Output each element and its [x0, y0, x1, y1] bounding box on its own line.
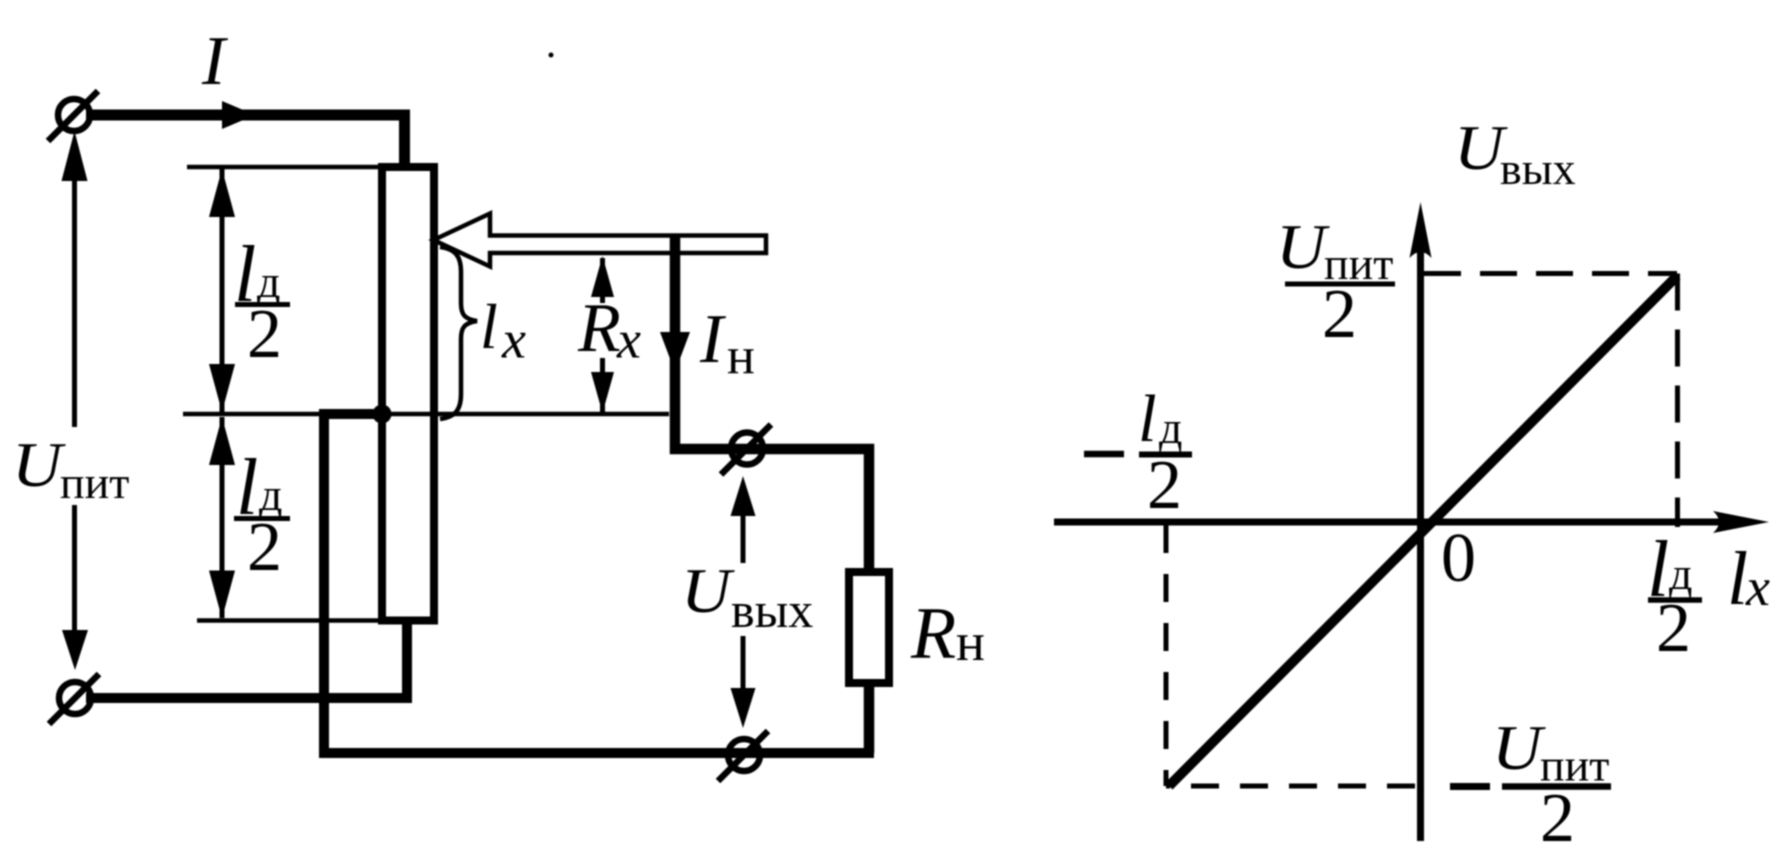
dimension l_d/2 upper — [209, 169, 235, 412]
label l_d/2 right — [1647, 526, 1702, 667]
label U_vyh graph title — [1454, 112, 1576, 194]
svg-text:2: 2 — [1656, 590, 1691, 667]
dimension line U_pit — [62, 131, 89, 670]
svg-text:U: U — [12, 429, 66, 500]
svg-text:x: x — [616, 310, 641, 370]
wire: Rn bottom leg — [864, 683, 875, 753]
label -U_pit/2 bottom — [1450, 712, 1611, 854]
wiper junction node — [373, 405, 392, 424]
dashed guide: top horizontal at U_pit/2 — [1424, 271, 1677, 276]
potentiometer body — [382, 167, 434, 621]
wire: bottom left return — [86, 621, 407, 699]
svg-text:пит: пит — [60, 457, 129, 508]
wire: wiper to bottom output rail — [324, 414, 874, 753]
svg-text:2: 2 — [1540, 780, 1575, 854]
svg-text:I: I — [699, 301, 727, 378]
current arrow I — [222, 101, 255, 129]
dashed guide: left vertical at -l_d/2 — [1164, 525, 1169, 786]
svg-text:н: н — [727, 328, 755, 385]
svg-text:l: l — [480, 291, 498, 362]
svg-text:U: U — [681, 555, 735, 626]
svg-text:вых: вых — [731, 582, 813, 638]
label I_n — [699, 301, 755, 385]
label l_x axis — [1727, 537, 1770, 621]
label l_d/2 upper — [234, 231, 290, 373]
label U_pit/2 top left — [1276, 211, 1395, 353]
terminal X4 (output bottom) — [718, 731, 768, 781]
svg-text:R: R — [910, 593, 956, 675]
svg-text:н: н — [956, 612, 985, 672]
terminal X2 (bottom left) — [49, 674, 99, 724]
label U_pit — [12, 429, 129, 508]
current arrow In — [660, 332, 690, 372]
svg-text:0: 0 — [1441, 520, 1476, 597]
terminal X3 (output top) — [721, 425, 771, 475]
label l_d/2 lower — [234, 444, 290, 586]
label R_x — [577, 290, 641, 370]
brace l_x — [440, 247, 477, 419]
svg-text:I: I — [201, 23, 229, 100]
graph x axis l_x — [1054, 511, 1769, 533]
extension line bottom — [197, 618, 411, 623]
wire: X1 to potentiometer top — [86, 115, 405, 167]
svg-text:U: U — [1492, 712, 1546, 783]
svg-text:вых: вых — [1500, 143, 1576, 194]
svg-text:2: 2 — [1147, 447, 1182, 524]
dimension R_x — [591, 256, 614, 413]
extension line top — [187, 165, 378, 170]
svg-text:U: U — [1276, 211, 1330, 282]
transfer characteristic line — [1169, 276, 1677, 786]
wire: In branch to load — [675, 236, 869, 572]
resistor Rn — [849, 572, 889, 683]
label -l_d/2 left — [1084, 382, 1192, 524]
label l_x — [480, 291, 526, 370]
stray dot — [549, 53, 554, 58]
svg-text:x: x — [1745, 557, 1770, 617]
svg-text:x: x — [501, 310, 526, 370]
svg-text:2: 2 — [247, 509, 282, 586]
svg-text:R: R — [577, 290, 621, 367]
terminal X1 (top left) — [48, 91, 98, 141]
dimension U_vyh — [731, 476, 756, 728]
label R_n — [910, 593, 985, 675]
dashed guide: right vertical at l_d/2 — [1675, 274, 1680, 528]
label U_vyh circuit — [681, 555, 813, 638]
svg-text:2: 2 — [247, 296, 282, 373]
wiper position line — [183, 412, 669, 417]
dimension l_d/2 lower — [209, 417, 235, 619]
dashed guide: bottom horizontal at -U_pit/2 — [1166, 784, 1415, 789]
svg-text:д: д — [1159, 402, 1182, 453]
svg-text:l: l — [1138, 382, 1157, 456]
svg-text:l: l — [1727, 537, 1748, 621]
svg-text:2: 2 — [1322, 276, 1357, 353]
displacement input arrow (hollow) — [434, 214, 767, 267]
graph y axis U_vyh — [1410, 202, 1432, 841]
